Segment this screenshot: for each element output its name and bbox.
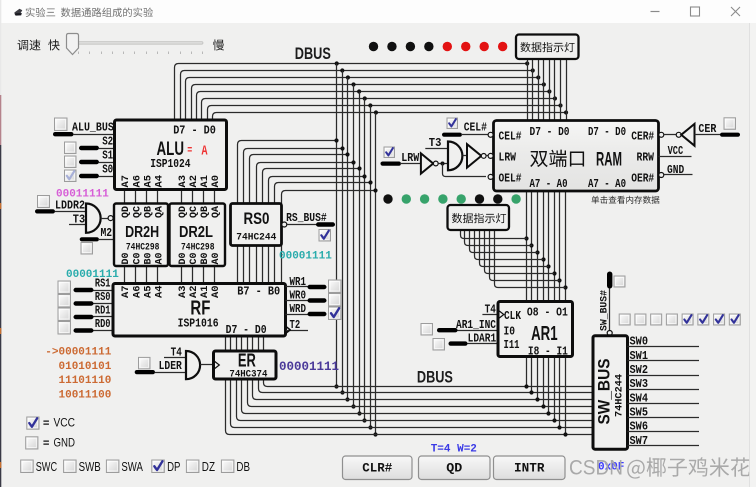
- svg-text:LDDR2: LDDR2: [55, 200, 85, 213]
- svg-text:D0: D0: [121, 253, 132, 265]
- svg-text:00001111: 00001111: [66, 269, 119, 281]
- svg-text:DB: DB: [236, 460, 250, 474]
- svg-text:INTR: INTR: [514, 462, 545, 476]
- svg-text:01010101: 01010101: [59, 361, 112, 373]
- svg-text:A7: A7: [120, 175, 132, 188]
- svg-text:CER: CER: [698, 123, 716, 136]
- svg-text:AR1_INC: AR1_INC: [456, 319, 496, 332]
- svg-text:OER#: OER#: [631, 173, 654, 186]
- svg-text:=: =: [43, 438, 50, 450]
- svg-text:S0: S0: [102, 164, 113, 177]
- svg-text:S1: S1: [102, 150, 113, 163]
- svg-text:I11: I11: [504, 339, 520, 352]
- svg-text:T=4 W=2: T=4 W=2: [431, 444, 477, 456]
- svg-text:C0: C0: [189, 253, 200, 265]
- svg-text:QD: QD: [121, 206, 132, 218]
- svg-text:SW_BUS: SW_BUS: [596, 359, 614, 425]
- svg-text:74HC298: 74HC298: [126, 242, 159, 254]
- svg-text:QD: QD: [446, 462, 463, 476]
- svg-text:74HC298: 74HC298: [181, 242, 215, 254]
- svg-text:QC: QC: [132, 206, 143, 218]
- svg-text:RRW: RRW: [637, 152, 655, 165]
- svg-text:RD0: RD0: [95, 318, 111, 331]
- svg-text:CEL#: CEL#: [499, 131, 522, 144]
- svg-text:A0: A0: [211, 253, 222, 265]
- svg-text:SWA: SWA: [121, 460, 143, 474]
- svg-text:A5: A5: [142, 286, 154, 299]
- svg-text:SWB: SWB: [79, 460, 101, 474]
- svg-text:B0: B0: [143, 253, 154, 265]
- svg-text:ISP1016: ISP1016: [178, 317, 219, 331]
- svg-text:LRW: LRW: [499, 152, 517, 165]
- svg-text:A0: A0: [210, 286, 222, 299]
- svg-text:DZ: DZ: [202, 460, 215, 474]
- svg-text:D0: D0: [178, 253, 189, 265]
- svg-text:RS0: RS0: [95, 291, 111, 304]
- svg-text:QC: QC: [189, 206, 200, 218]
- svg-text:QA: QA: [155, 206, 166, 218]
- svg-text:C0: C0: [132, 253, 143, 265]
- svg-text:RD1: RD1: [95, 305, 111, 318]
- svg-text:A0: A0: [210, 175, 222, 188]
- svg-text:->00001111: ->00001111: [45, 347, 111, 359]
- svg-text:CLR#: CLR#: [362, 462, 392, 476]
- svg-text:74HC244: 74HC244: [615, 374, 626, 417]
- svg-text:10011100: 10011100: [59, 390, 112, 402]
- svg-text:QB: QB: [143, 206, 154, 218]
- svg-text:A: A: [202, 144, 208, 160]
- svg-text:A4: A4: [154, 286, 166, 299]
- svg-text:DR2L: DR2L: [179, 224, 213, 241]
- svg-text:SW_BUS#: SW_BUS#: [600, 290, 611, 331]
- svg-text:00001111: 00001111: [279, 251, 332, 263]
- svg-text:CER#: CER#: [631, 131, 654, 144]
- svg-text:CEL#: CEL#: [464, 122, 487, 135]
- svg-text:QB: QB: [200, 206, 211, 218]
- svg-text:QD: QD: [178, 206, 189, 218]
- svg-text:74HC374: 74HC374: [229, 369, 267, 381]
- svg-text:CLK: CLK: [504, 310, 521, 323]
- svg-text:QA: QA: [211, 206, 222, 218]
- svg-text:ALU_BUS: ALU_BUS: [72, 122, 114, 135]
- svg-text:=: =: [187, 144, 192, 158]
- svg-text:S2: S2: [102, 136, 113, 149]
- svg-text:A0: A0: [155, 253, 166, 265]
- svg-text:A7 - A0: A7 - A0: [530, 178, 568, 191]
- svg-text:DBUS: DBUS: [295, 44, 331, 63]
- svg-text:A4: A4: [154, 175, 166, 188]
- svg-text:D7 - D0: D7 - D0: [530, 126, 570, 139]
- svg-text:A5: A5: [142, 175, 154, 188]
- svg-text:DR2H: DR2H: [125, 224, 159, 241]
- svg-text:A7 - A0: A7 - A0: [588, 178, 626, 191]
- svg-text:D7 - D0: D7 - D0: [226, 324, 267, 337]
- svg-text:GND: GND: [54, 435, 76, 449]
- svg-text:I8 - I1: I8 - I1: [528, 345, 568, 358]
- svg-text:B0: B0: [200, 253, 211, 265]
- svg-text:AR1: AR1: [531, 323, 558, 345]
- svg-text:O8 - O1: O8 - O1: [527, 306, 568, 319]
- svg-text:VCC: VCC: [54, 416, 76, 430]
- svg-text:RS0: RS0: [244, 209, 270, 228]
- svg-text:DBUS: DBUS: [417, 367, 453, 386]
- svg-text:M2: M2: [101, 227, 113, 240]
- svg-text:A7: A7: [120, 286, 132, 299]
- svg-text:RAM: RAM: [596, 150, 622, 171]
- svg-text:D7 - D0: D7 - D0: [588, 126, 626, 139]
- svg-text:00001111: 00001111: [279, 360, 339, 374]
- svg-text:DP: DP: [167, 460, 180, 474]
- svg-text:I0: I0: [504, 325, 516, 338]
- svg-text:B7 - B0: B7 - B0: [237, 286, 280, 299]
- svg-text:CSDN: CSDN: [569, 457, 623, 480]
- svg-text:SWC: SWC: [36, 460, 57, 474]
- svg-text:11101110: 11101110: [59, 375, 112, 387]
- svg-text:RS1: RS1: [95, 278, 111, 291]
- svg-text:GND: GND: [667, 164, 684, 177]
- svg-text:ISP1024: ISP1024: [150, 157, 190, 171]
- svg-text:ER: ER: [238, 351, 256, 371]
- svg-text:OEL#: OEL#: [499, 173, 522, 186]
- svg-text:D7 - D0: D7 - D0: [173, 125, 216, 138]
- svg-text:VCC: VCC: [668, 145, 684, 158]
- svg-text:=: =: [43, 419, 50, 431]
- svg-text:LDER: LDER: [159, 360, 182, 373]
- svg-text:74HC244: 74HC244: [236, 232, 276, 244]
